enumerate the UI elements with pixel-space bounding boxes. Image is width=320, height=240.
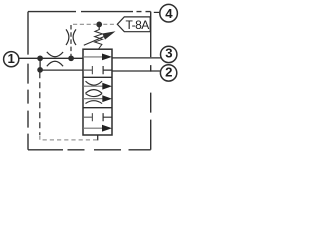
enclosure boundary bottom edge [28, 149, 151, 151]
spring stub wire [98, 24, 100, 30]
enclosure boundary right edge [150, 12, 152, 150]
port 3 line [112, 57, 162, 59]
pilot wire to relief (gray dashed) [73, 23, 96, 25]
pos2 arrow head 2 [102, 95, 112, 102]
branch link wire A-B [39, 58, 41, 70]
svg-text:3: 3 [165, 45, 172, 60]
svg-text:T-8A: T-8A [126, 18, 150, 32]
junction dot B [37, 67, 43, 73]
pos2 orifice arcs 1 [86, 81, 103, 93]
pos1 flow arrow head [102, 54, 112, 61]
orifice O1 arcs [47, 52, 63, 66]
port 3 circle [161, 46, 177, 62]
branch wire to valve lower port [40, 69, 83, 71]
pos3 blocked port left [83, 113, 92, 121]
svg-text:1: 1 [8, 51, 15, 66]
svg-text:4: 4 [165, 6, 173, 21]
pos1 flow path shaft [83, 56, 103, 58]
drain stub wire [97, 135, 99, 140]
port 1 circle [4, 52, 19, 67]
junction dot C (pilot tap) [68, 55, 74, 61]
T-8A tag [117, 17, 150, 32]
svg-text:2: 2 [165, 65, 172, 80]
pos2 restricted path 2 shaft [83, 98, 103, 100]
pilot wire down (dashed) [39, 72, 41, 135]
junction dot A [37, 55, 43, 61]
pos3 blocked port right [103, 113, 112, 121]
valve position divider 1 [83, 76, 112, 78]
adjustment arrow head [102, 31, 115, 39]
pos3 flow arrow head [102, 125, 112, 132]
pilot drain wire (gray dashed) [40, 136, 98, 140]
pilot wire dot to tag (dashed) [103, 23, 116, 25]
pos2 restricted path 1 shaft [83, 85, 103, 87]
enclosure boundary left edge [27, 12, 29, 150]
enclosure boundary top edge [28, 11, 151, 13]
pos3 flow path shaft [83, 127, 103, 129]
port 1 supply line [19, 57, 84, 59]
pos1 blocked port right [103, 66, 112, 74]
spring (zigzag) [95, 30, 103, 49]
port 2 circle [160, 65, 176, 81]
adjustment arrow shaft [84, 36, 105, 45]
pos1 blocked port left [83, 66, 92, 74]
orifice O2 arcs [66, 29, 76, 45]
valve position divider 2 [83, 107, 112, 109]
port 4 circle [160, 4, 178, 22]
dash to port 4 [154, 11, 160, 13]
pos2 arrow head 1 [102, 83, 112, 90]
pilot wire up (dashed) [70, 25, 72, 58]
port 2 line [112, 70, 161, 72]
relief pilot junction dot [96, 22, 102, 28]
pos2 orifice arcs 2 [86, 94, 103, 104]
valve body outline [83, 49, 112, 135]
